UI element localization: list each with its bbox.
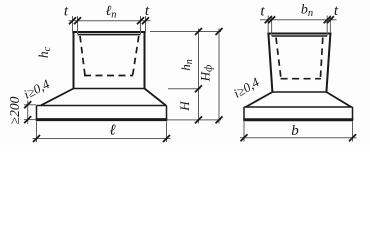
tick <box>163 135 170 142</box>
tick <box>216 116 223 123</box>
extension line inner-left t <box>271 16 273 36</box>
svg-text:≥200: ≥200 <box>7 96 22 124</box>
base slab bottom edge (thick) <box>243 118 353 121</box>
extension line bottom of slab edge <box>24 119 36 121</box>
tick <box>268 16 275 23</box>
socket right inner wall (hidden, dashed) <box>320 38 322 79</box>
pedestal right wall <box>144 32 146 89</box>
pedestal top edge <box>267 33 331 35</box>
base slab right edge <box>352 107 354 121</box>
tick <box>142 17 149 24</box>
tick <box>195 116 202 123</box>
base slab right edge <box>166 106 168 121</box>
svg-text:b: b <box>291 123 299 139</box>
pedestal bottom line <box>272 91 327 93</box>
extension line outer-right t <box>329 16 331 34</box>
extension line slab right corner <box>352 122 354 142</box>
tick <box>241 134 248 141</box>
dimension line l <box>33 138 171 140</box>
left haunch slope <box>41 89 74 106</box>
extension line slab right corner <box>166 122 168 143</box>
extension line top of slab edge <box>24 104 36 106</box>
left haunch slope <box>246 92 273 107</box>
extension line inner-right t <box>326 16 328 36</box>
socket rim line <box>78 34 141 36</box>
extension line inner-left t <box>77 16 79 34</box>
dimension line b <box>240 137 357 139</box>
pedestal right wall (tapered) <box>326 34 330 93</box>
extension line inner-right t <box>140 16 142 34</box>
extension line bottom of pedestal <box>168 88 201 90</box>
base slab top edge <box>244 106 353 108</box>
top dimension line <box>260 19 337 21</box>
tick <box>265 16 272 23</box>
tick <box>195 28 202 35</box>
right haunch slope <box>326 92 351 107</box>
tick <box>69 17 76 24</box>
socket left inner wall (hidden, dashed) <box>276 38 281 79</box>
base slab top edge <box>37 105 167 107</box>
tick <box>216 28 223 35</box>
tick <box>327 16 334 23</box>
tick <box>74 17 81 24</box>
base slab left edge <box>243 107 245 121</box>
extension line outer-left t <box>267 16 269 34</box>
extension line top of pedestal <box>150 31 221 33</box>
socket right inner wall (hidden, dashed) <box>133 36 139 76</box>
tick <box>33 135 40 142</box>
tick <box>24 101 31 108</box>
extension line outer-right t <box>145 16 147 32</box>
dimension line hn / H <box>198 29 200 124</box>
dimension line Nf <box>218 29 220 124</box>
tick <box>324 16 331 23</box>
tick <box>24 116 31 123</box>
tick <box>349 134 356 141</box>
pedestal bottom line <box>73 88 146 90</box>
pedestal left wall <box>73 32 75 89</box>
socket left inner wall (hidden, dashed) <box>80 36 85 76</box>
dimension line >=200 <box>27 101 29 124</box>
socket bottom (hidden, dashed) <box>84 75 133 77</box>
tick <box>137 17 144 24</box>
extension line slab left corner <box>243 122 245 142</box>
socket rim line <box>272 35 328 37</box>
tick <box>195 85 202 92</box>
extension line bottom of slab <box>167 119 221 121</box>
extension line outer-left t <box>72 16 74 32</box>
base slab bottom edge (thick) <box>36 118 167 121</box>
top dimension line <box>69 20 151 22</box>
svg-text:H: H <box>177 101 192 112</box>
right haunch slope <box>145 89 167 106</box>
extension line slab left corner <box>36 122 38 143</box>
pedestal top edge <box>72 31 145 33</box>
pedestal left wall (tapered) <box>268 34 272 93</box>
svg-text:ℓ: ℓ <box>109 123 115 139</box>
socket bottom (hidden, dashed) <box>281 78 321 80</box>
base slab left edge <box>36 106 38 121</box>
